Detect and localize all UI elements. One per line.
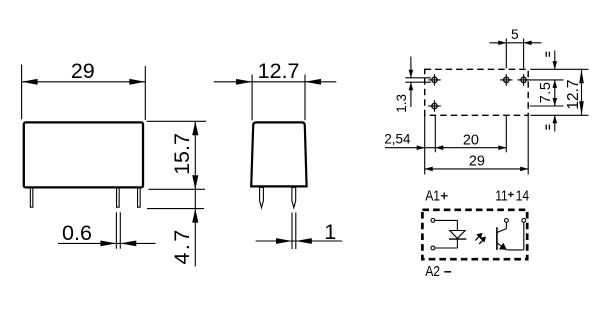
extension lines below PCB plan xyxy=(425,116,529,175)
svg-text:11: 11 xyxy=(495,188,508,204)
equal-margin mark top xyxy=(546,52,549,57)
pin 3 (left view, right pin) xyxy=(138,187,141,208)
wire LED cathode to A2 xyxy=(456,239,458,248)
hole H4 (top right) xyxy=(517,74,529,85)
svg-text:14: 14 xyxy=(516,188,530,204)
hole H2 (bottom left) xyxy=(428,100,440,111)
svg-text:20: 20 xyxy=(463,132,479,148)
svg-text:1: 1 xyxy=(324,220,336,244)
terminal A1 xyxy=(431,219,435,223)
svg-text:5: 5 xyxy=(511,27,519,42)
svg-text:29: 29 xyxy=(71,59,95,83)
dimension 0.6 (pin width, left view) xyxy=(58,212,156,248)
dimension 15.7 (body height, left view) xyxy=(147,121,207,266)
pin 1 (left view, left pin) xyxy=(30,187,32,208)
emitter wire with arrow xyxy=(497,243,503,247)
svg-text:A1: A1 xyxy=(425,188,440,204)
terminal 11 xyxy=(505,219,509,223)
svg-text:7.5: 7.5 xyxy=(538,81,554,103)
dimension 29 (body width, left view) xyxy=(22,65,146,121)
phototransistor Q1 base bar xyxy=(496,227,498,250)
LED D1 xyxy=(450,231,465,239)
right side extension lines xyxy=(528,69,589,115)
terminal A2 xyxy=(431,246,435,250)
collector wire xyxy=(505,222,507,228)
dimension 5 (hole spacing) xyxy=(490,39,542,69)
pin 4 (side view, left pin) xyxy=(260,188,264,208)
svg-text:4.7: 4.7 xyxy=(170,227,194,264)
svg-text:12.7: 12.7 xyxy=(258,59,300,83)
schematic enclosure (dashed) xyxy=(422,210,527,259)
relay body front view xyxy=(24,122,143,187)
dimension 1 (pin thickness, side view) xyxy=(256,213,342,250)
dimension 2.54 (edge to first hole) xyxy=(385,147,506,149)
terminal 14 xyxy=(522,219,526,223)
dimension 1.3 (hole diameter) xyxy=(405,57,431,108)
svg-text:12.7: 12.7 xyxy=(565,80,582,110)
dimension 20 (hole span) xyxy=(498,145,506,150)
hole H3 (top middle) xyxy=(500,74,512,85)
svg-text:0.6: 0.6 xyxy=(62,221,92,245)
pin 5 (side view, right pin) xyxy=(292,188,296,208)
light arrow 2 xyxy=(479,239,484,244)
equal-margin mark bottom xyxy=(546,125,549,130)
svg-text:A2: A2 xyxy=(425,263,440,279)
dimension 29 (PCB outline width) xyxy=(425,168,529,170)
svg-text:2,54: 2,54 xyxy=(384,132,411,147)
svg-text:29: 29 xyxy=(469,154,485,170)
PCB outline (dashed) xyxy=(425,69,529,115)
light arrow 1 xyxy=(475,236,480,241)
hole H1 (top left) xyxy=(428,74,440,85)
dimension 12.7 (PCB outline height) xyxy=(581,69,583,115)
pin 2 (left view, middle pin) xyxy=(117,187,120,208)
svg-text:1.3: 1.3 xyxy=(394,94,409,113)
relay body side view xyxy=(251,122,306,186)
dimension 12.7 (body depth, side view) xyxy=(214,75,336,121)
dimension 7.5 (hole row spacing) xyxy=(554,80,556,106)
wire A1 to LED anode xyxy=(435,219,458,221)
svg-text:15.7: 15.7 xyxy=(170,133,194,175)
